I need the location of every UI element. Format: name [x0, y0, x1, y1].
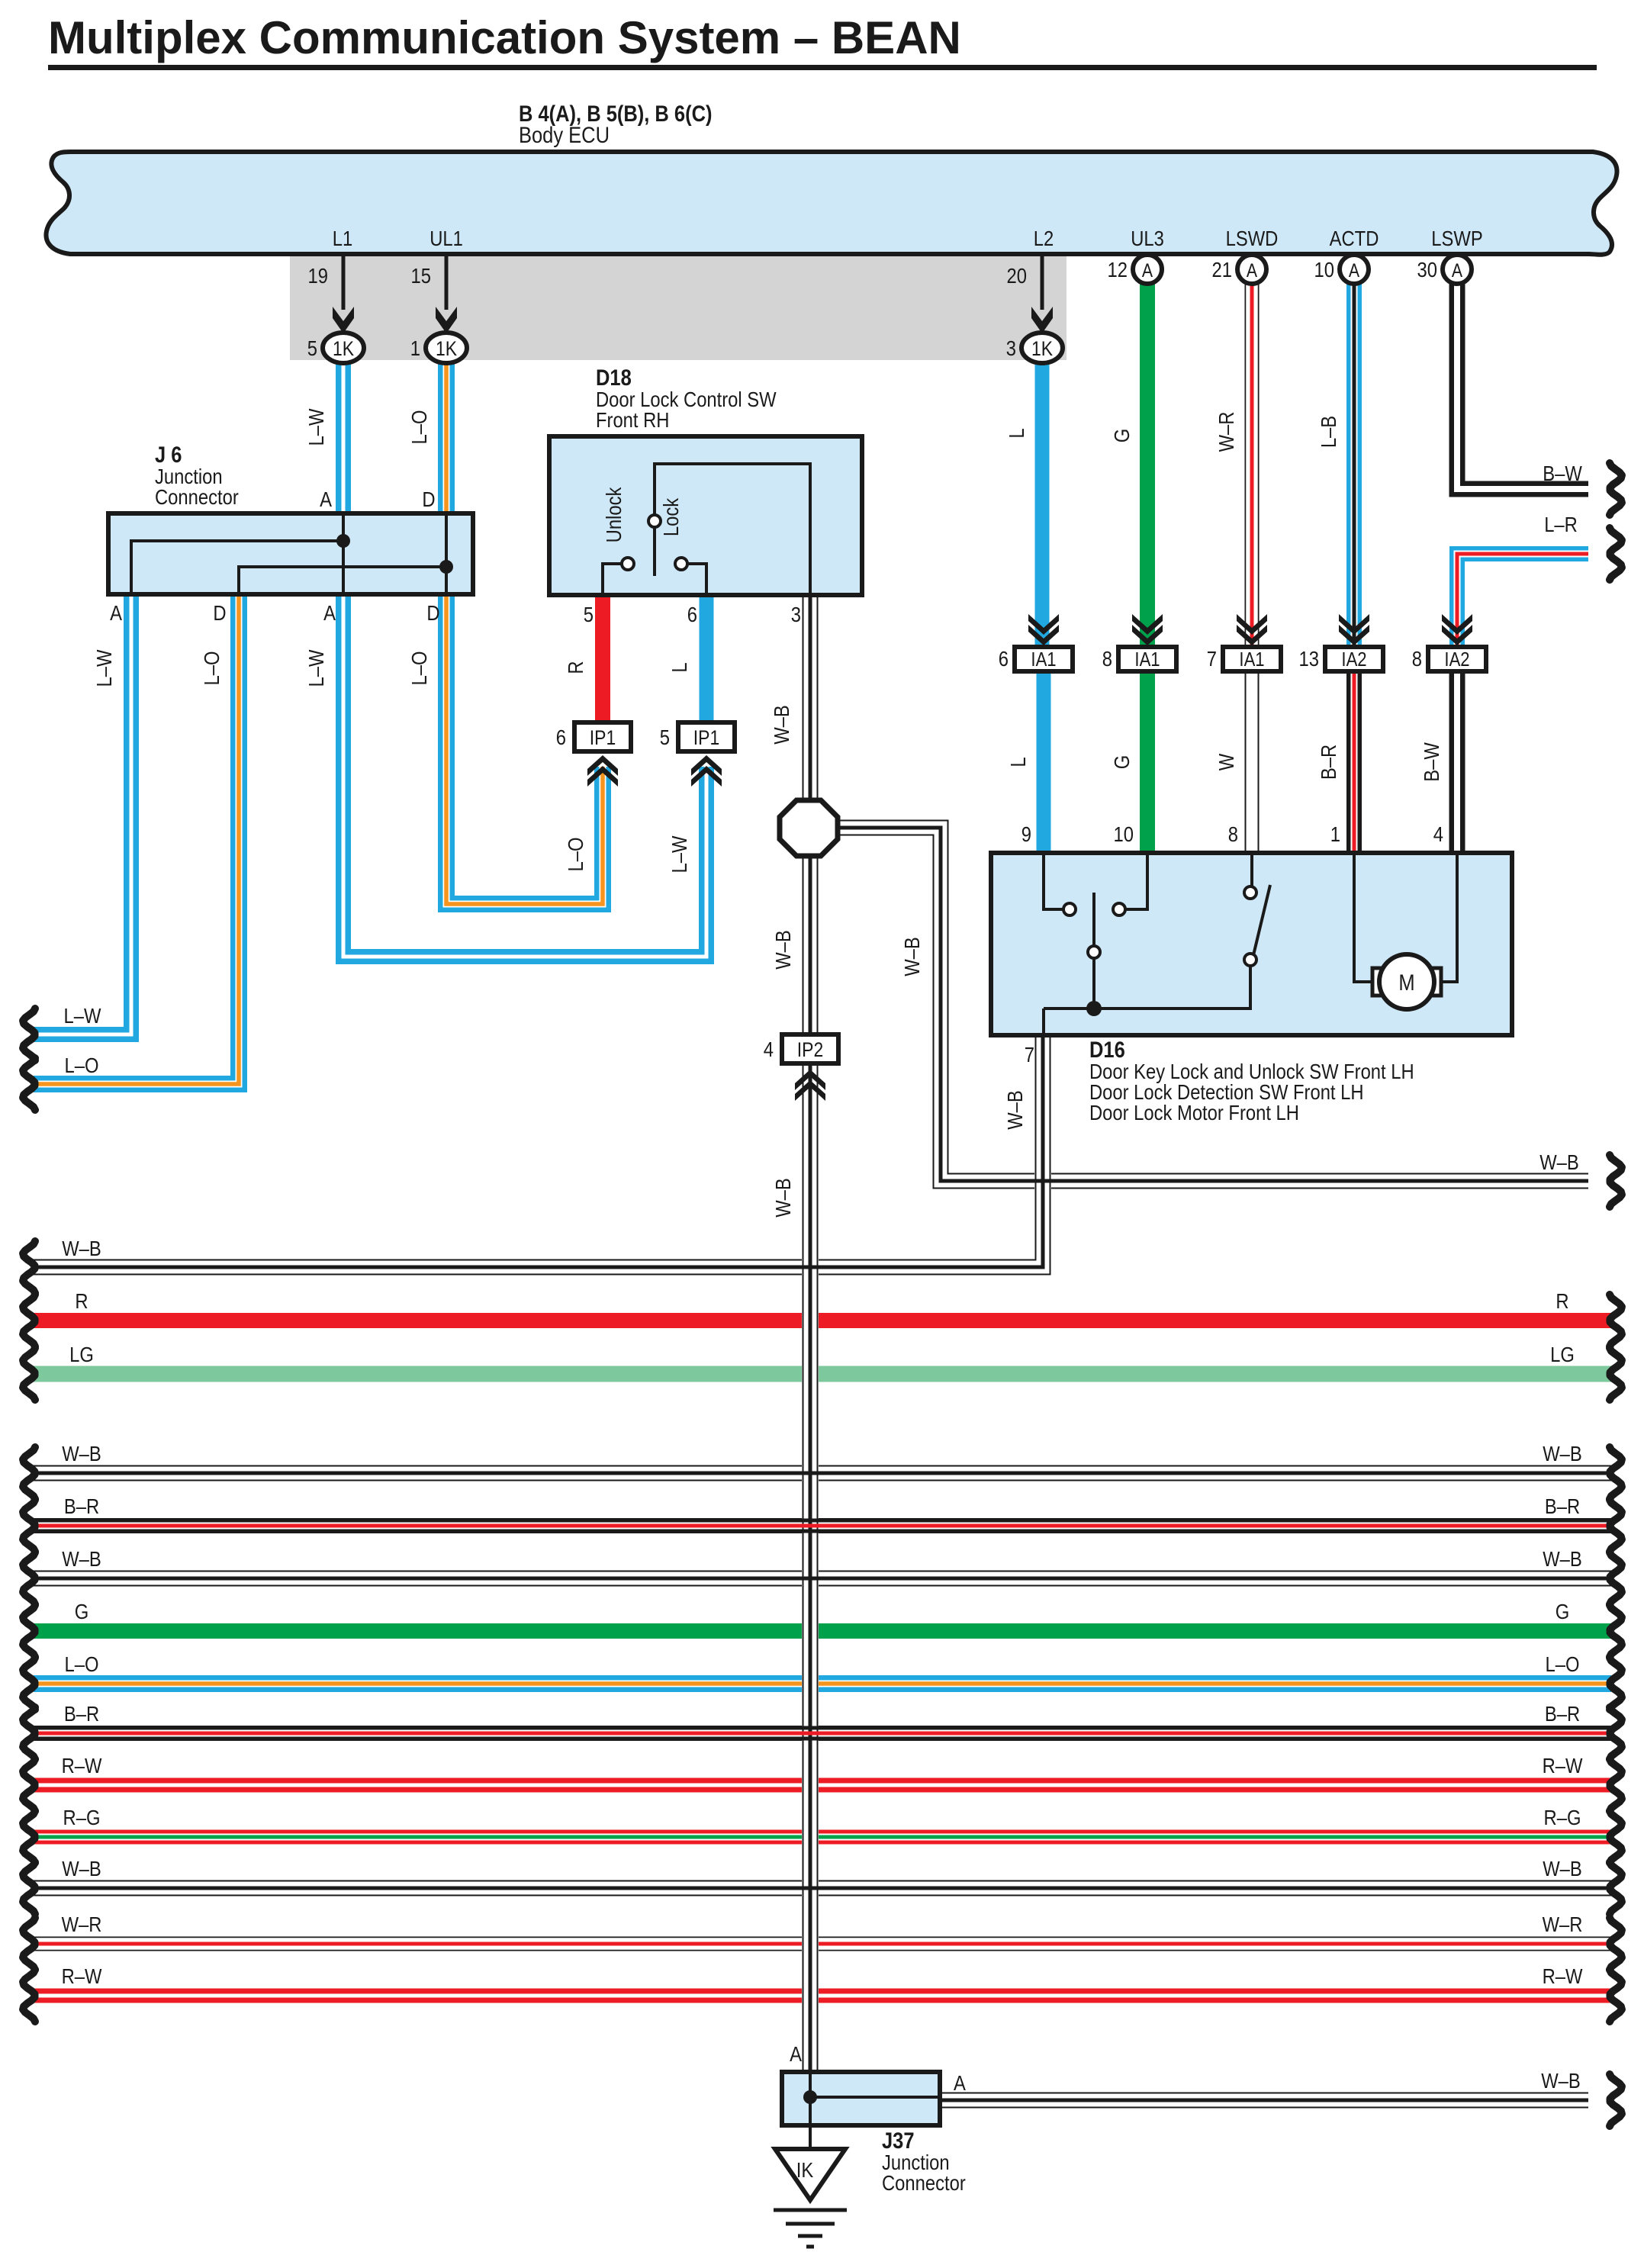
connector IA1 pin 7 chevron: [1237, 625, 1267, 645]
svg-text:L–B: L–B: [1316, 416, 1340, 448]
svg-text:13: 13: [1299, 646, 1319, 671]
D18 internal lock/unlock switch: [603, 464, 810, 595]
svg-text:IK: IK: [796, 2157, 814, 2182]
svg-text:W–R: W–R: [62, 1912, 102, 1936]
svg-text:R–W: R–W: [1543, 1964, 1583, 1988]
wire L from D18 pin6 to IP1: [700, 595, 714, 722]
svg-text:7: 7: [1207, 646, 1217, 671]
svg-text:A: A: [954, 2070, 966, 2095]
svg-text:1: 1: [1330, 822, 1340, 846]
ground triangle IK: [775, 2149, 845, 2200]
svg-text:G: G: [1109, 755, 1134, 770]
svg-text:10: 10: [1314, 257, 1334, 281]
wire R from D18 pin5 to IP1: [595, 595, 610, 722]
continuation symbol L-O left: [23, 1658, 35, 1710]
gray shading band: [290, 256, 1067, 360]
ECU pin 10 connector A: [1314, 255, 1369, 284]
svg-text:4: 4: [764, 1037, 774, 1061]
continuation symbol R left: [23, 1295, 35, 1346]
wire W-R from A pin21 to IA1: [1245, 284, 1260, 647]
svg-text:R: R: [1556, 1288, 1568, 1313]
svg-text:B–R: B–R: [1316, 745, 1340, 780]
svg-text:IA1: IA1: [1031, 648, 1056, 671]
continuation symbol W-R left: [23, 1918, 35, 1970]
wire W-B from splice to page edge: [838, 828, 1588, 1181]
continuation symbol R-W left: [23, 1970, 35, 2022]
svg-text:W–B: W–B: [771, 1178, 795, 1218]
continuation symbol R right: [1610, 1295, 1622, 1346]
svg-text:3: 3: [1006, 336, 1016, 360]
D16 internal switches: [1044, 853, 1457, 1035]
wire W-B row: [34, 1571, 1611, 1587]
svg-text:12: 12: [1108, 257, 1128, 281]
J37 internal bus: [810, 2072, 940, 2125]
svg-text:IP1: IP1: [590, 726, 616, 749]
svg-text:Unlock: Unlock: [601, 487, 626, 543]
svg-text:LG: LG: [1550, 1342, 1575, 1366]
wire R-W row: [34, 1778, 1611, 1793]
IP1 pin 5 chevron: [691, 755, 722, 776]
wire L-W from J6 A to IP1 pin5: [343, 594, 706, 957]
svg-text:B–R: B–R: [64, 1494, 99, 1518]
D18 switch box: [549, 436, 862, 595]
continuation symbol L-O: [23, 1058, 35, 1110]
connector IA2 pin 8 chevron: [1442, 625, 1472, 645]
wire L-R from page edge to IA2: [1457, 554, 1588, 645]
svg-text:R: R: [75, 1288, 88, 1313]
ECU pin 19 arrow into connector 1K pin 5: [307, 254, 364, 363]
svg-text:B–R: B–R: [1545, 1494, 1580, 1518]
continuation symbol W-B right: [1610, 1552, 1622, 1604]
svg-text:L–W: L–W: [667, 835, 691, 873]
svg-text:L: L: [667, 662, 691, 672]
svg-text:W–B: W–B: [1543, 1441, 1582, 1465]
connector IA1 pin 6: [999, 646, 1073, 671]
svg-text:D: D: [213, 600, 226, 625]
svg-text:A: A: [790, 2041, 802, 2066]
wire L from 1K pin3 to IA1: [1035, 362, 1050, 647]
svg-text:W–B: W–B: [771, 930, 795, 970]
wire W-B from D16 pin7 to left page edge: [34, 1035, 1043, 1267]
junction connector J37 box: [782, 2072, 940, 2125]
wire B-W from A pin30 to page edge: [1457, 284, 1588, 489]
svg-text:R–W: R–W: [1543, 1753, 1583, 1777]
svg-text:30: 30: [1417, 257, 1437, 281]
IP2 chevron: [795, 1070, 825, 1090]
svg-text:G: G: [1109, 429, 1134, 443]
continuation symbol R-G left: [23, 1811, 35, 1863]
svg-text:1K: 1K: [1031, 337, 1053, 360]
wire J37 to ground: [809, 2125, 812, 2150]
ECU pin 21 connector A: [1212, 255, 1266, 284]
connector IA2 pin 13 chevron: [1339, 625, 1369, 645]
svg-text:UL3: UL3: [1131, 226, 1164, 250]
svg-text:W: W: [1214, 753, 1238, 770]
svg-text:L–O: L–O: [199, 651, 224, 686]
junction connector J6 box: [108, 513, 473, 594]
continuation symbol G right: [1610, 1605, 1622, 1657]
J6 internal busbars with junction dots: [131, 513, 446, 594]
svg-text:R–G: R–G: [1544, 1805, 1581, 1829]
continuation symbol L-O right: [1610, 1658, 1622, 1710]
ground symbol: [774, 2210, 847, 2247]
continuation symbol R-W right: [1610, 1970, 1622, 2022]
wire W-B from D18 pin3 via splice and IP2 to J37: [802, 595, 819, 2072]
svg-text:L–O: L–O: [407, 651, 431, 686]
connector IP1 pin 5: [660, 722, 735, 751]
connector IA1 pin 7: [1207, 646, 1281, 671]
connector IP2 pin 4: [764, 1034, 838, 1063]
svg-text:W–B: W–B: [899, 937, 924, 976]
svg-text:W–R: W–R: [1214, 412, 1238, 452]
svg-text:Front RH: Front RH: [596, 407, 669, 432]
svg-text:1: 1: [410, 336, 420, 360]
svg-text:IA2: IA2: [1444, 648, 1469, 671]
wire B-R row: [34, 1518, 1611, 1533]
svg-text:Connector: Connector: [882, 2170, 966, 2195]
svg-text:A: A: [110, 600, 122, 625]
continuation symbol W-B left: [23, 1862, 35, 1914]
svg-text:R–W: R–W: [62, 1753, 102, 1777]
svg-text:W–B: W–B: [62, 1546, 101, 1571]
svg-text:A: A: [1349, 259, 1360, 281]
svg-text:ACTD: ACTD: [1330, 226, 1379, 250]
svg-text:W–B: W–B: [62, 1856, 101, 1880]
continuation symbol W-B row1: [23, 1241, 35, 1293]
svg-text:UL1: UL1: [429, 226, 463, 250]
svg-text:L–W: L–W: [304, 649, 328, 687]
continuation symbol W-B right: [1610, 1447, 1622, 1499]
svg-text:D: D: [422, 487, 435, 511]
svg-text:W–B: W–B: [1539, 1150, 1579, 1174]
svg-text:L2: L2: [1034, 226, 1054, 250]
wire L-O from 1K pin1 to J6: [438, 362, 455, 513]
svg-text:W–B: W–B: [1541, 2068, 1581, 2093]
svg-text:L–O: L–O: [563, 838, 587, 872]
continuation symbol B-R left: [23, 1707, 35, 1759]
continuation symbol W-B right: [1610, 1862, 1622, 1914]
J37 junction dot: [803, 2090, 817, 2104]
svg-text:R: R: [563, 661, 587, 674]
IP1 pin 6 chevron: [587, 755, 618, 776]
wire L-B from A pin10 to IA2: [1346, 284, 1362, 647]
svg-text:9: 9: [1021, 822, 1031, 846]
svg-text:8: 8: [1412, 646, 1422, 671]
wire R-W row: [34, 1989, 1611, 2003]
svg-text:L–O: L–O: [65, 1053, 99, 1077]
svg-text:20: 20: [1007, 263, 1027, 288]
svg-text:6: 6: [556, 725, 566, 749]
svg-text:1K: 1K: [333, 337, 354, 360]
svg-text:B–W: B–W: [1419, 742, 1443, 782]
svg-text:L–W: L–W: [92, 649, 116, 687]
svg-text:3: 3: [791, 602, 801, 626]
svg-text:IA1: IA1: [1239, 648, 1264, 671]
wire B-W from IA2 to D16 pin4: [1449, 671, 1465, 853]
svg-text:G: G: [75, 1599, 89, 1623]
svg-text:15: 15: [411, 263, 431, 288]
svg-text:4: 4: [1433, 822, 1443, 846]
continuation symbol L-W: [23, 1009, 35, 1060]
svg-text:W–R: W–R: [1543, 1912, 1583, 1936]
svg-text:R–W: R–W: [62, 1964, 102, 1988]
continuation symbol R-W right: [1610, 1759, 1622, 1811]
svg-text:G: G: [1556, 1599, 1570, 1623]
D16 box: [991, 853, 1512, 1035]
svg-text:L–O: L–O: [65, 1652, 99, 1676]
svg-text:L–O: L–O: [407, 410, 431, 445]
svg-text:IP1: IP1: [693, 726, 719, 749]
svg-text:LG: LG: [69, 1342, 94, 1366]
svg-text:8: 8: [1228, 822, 1238, 846]
wire B-R from IA2 to D16 pin1: [1346, 671, 1362, 853]
svg-text:5: 5: [660, 725, 670, 749]
svg-text:M: M: [1398, 970, 1414, 995]
svg-text:L: L: [1005, 757, 1030, 767]
svg-text:6: 6: [999, 646, 1009, 671]
continuation symbol W-B J37: [1610, 2074, 1622, 2126]
svg-text:W–B: W–B: [1543, 1856, 1582, 1880]
svg-text:L1: L1: [333, 226, 352, 250]
continuation symbol G left: [23, 1605, 35, 1657]
continuation symbol R-G right: [1610, 1811, 1622, 1863]
svg-text:L–R: L–R: [1544, 512, 1578, 536]
svg-text:A: A: [1142, 259, 1153, 281]
continuation symbol B-R left: [23, 1500, 35, 1552]
continuation symbol W-B left: [23, 1552, 35, 1604]
svg-text:6: 6: [687, 602, 697, 626]
svg-text:IA2: IA2: [1341, 648, 1366, 671]
svg-text:B–W: B–W: [1543, 461, 1582, 485]
connector IA1 pin 8 chevron: [1132, 625, 1163, 645]
wire W-R row: [34, 1937, 1611, 1951]
svg-text:D: D: [426, 600, 439, 625]
svg-text:5: 5: [307, 336, 317, 360]
ECU pin 30 connector A: [1417, 255, 1472, 284]
svg-text:W–B: W–B: [1543, 1546, 1582, 1571]
wire G row: [34, 1623, 1611, 1639]
svg-text:A: A: [323, 600, 336, 625]
svg-text:B–R: B–R: [64, 1701, 99, 1726]
svg-text:IA1: IA1: [1134, 648, 1160, 671]
svg-text:L: L: [1004, 428, 1028, 438]
branch continuity patch at pin7 crossing: [1031, 1179, 1055, 1183]
wire L-O row: [34, 1675, 1611, 1692]
svg-text:A: A: [1247, 259, 1258, 281]
ECU pin 20 arrow into connector 1K pin 3: [1006, 254, 1063, 363]
wire L-W from 1K pin5 to J6: [336, 362, 351, 513]
connector IA1 pin 6 chevron: [1028, 625, 1059, 645]
continuation symbol LG left: [23, 1348, 35, 1400]
continuation symbol W-R right: [1610, 1918, 1622, 1970]
svg-text:W–B: W–B: [1002, 1090, 1027, 1130]
title underline: [48, 65, 1597, 70]
svg-text:Door Lock Motor Front LH: Door Lock Motor Front LH: [1089, 1100, 1299, 1124]
continuation symbol B-W: [1610, 463, 1622, 515]
svg-text:A: A: [320, 487, 332, 511]
continuation symbol LG right: [1610, 1348, 1622, 1400]
ECU pin 12 connector A: [1108, 255, 1162, 284]
connector IA2 pin 8: [1412, 646, 1486, 671]
wire W from IA1 to D16 pin8: [1245, 671, 1260, 853]
splice octagon: [780, 800, 838, 856]
ECU pin 15 arrow into connector 1K pin 1: [410, 254, 467, 363]
svg-text:Body ECU: Body ECU: [519, 122, 610, 147]
svg-text:1K: 1K: [436, 337, 457, 360]
wire R row: [34, 1313, 1611, 1328]
svg-text:W–B: W–B: [62, 1236, 101, 1260]
wire L-W from J6 A to left page edge: [34, 594, 131, 1034]
svg-text:LSWP: LSWP: [1431, 226, 1482, 250]
svg-text:19: 19: [308, 263, 328, 288]
svg-text:7: 7: [1025, 1042, 1034, 1066]
svg-text:Connector: Connector: [155, 484, 239, 509]
svg-text:W–B: W–B: [769, 705, 793, 745]
svg-text:Lock: Lock: [658, 497, 683, 536]
svg-text:L–W: L–W: [64, 1003, 101, 1028]
wire L from IA1 to D16 pin9: [1037, 671, 1051, 853]
svg-text:L–O: L–O: [1546, 1652, 1580, 1676]
svg-text:R–G: R–G: [63, 1805, 101, 1829]
wire L-O from J6 D to IP1 pin6: [446, 594, 603, 904]
wire LG row: [34, 1366, 1611, 1382]
continuation symbol B-R right: [1610, 1500, 1622, 1552]
wire G from A pin12 to IA1: [1140, 284, 1155, 647]
row continuity patches at central wire crossing: [798, 1267, 822, 1888]
wire W-B row: [34, 1465, 1611, 1481]
svg-text:LSWD: LSWD: [1226, 226, 1279, 250]
continuation symbol W-B branch: [1610, 1155, 1622, 1207]
svg-text:A: A: [1452, 259, 1463, 281]
svg-text:W–B: W–B: [62, 1441, 101, 1465]
wire R-G row: [34, 1830, 1611, 1845]
wire W-B from J37 pin A to page edge: [940, 2093, 1588, 2109]
continuation symbol W-B left: [23, 1447, 35, 1499]
connector IA1 pin 8: [1102, 646, 1176, 671]
svg-text:8: 8: [1102, 646, 1112, 671]
connector IP1 pin 6: [556, 722, 631, 751]
continuation symbol B-R right: [1610, 1707, 1622, 1759]
svg-text:5: 5: [584, 602, 594, 626]
continuation symbol L-R: [1610, 528, 1622, 580]
wire W-B row: [34, 1880, 1611, 1896]
connector IA2 pin 13: [1299, 646, 1383, 671]
wire G from IA1 to D16 pin10: [1140, 671, 1155, 853]
D16 door lock motor M: [1372, 968, 1386, 996]
svg-text:IP2: IP2: [797, 1038, 823, 1061]
svg-text:Multiplex Communication System: Multiplex Communication System – BEAN: [48, 12, 961, 63]
svg-text:B–R: B–R: [1545, 1701, 1580, 1726]
svg-text:L–W: L–W: [304, 408, 328, 446]
continuation symbol R-W left: [23, 1759, 35, 1811]
ECU B4/B5/B6 Body ECU block: [46, 152, 1617, 255]
svg-text:10: 10: [1114, 822, 1134, 846]
wire L-O from J6 D to left page edge: [34, 594, 239, 1084]
svg-text:21: 21: [1212, 257, 1232, 281]
wire B-R row: [34, 1726, 1611, 1741]
